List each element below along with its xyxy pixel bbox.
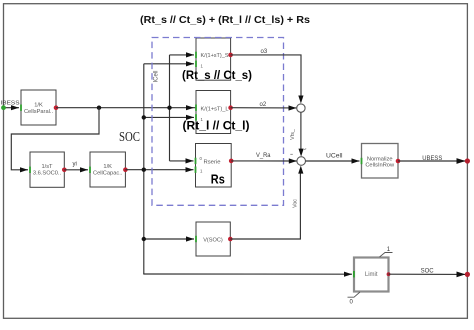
- svg-text:Rs: Rs: [211, 173, 225, 187]
- block Rserie: [186, 144, 234, 188]
- svg-text:V(SOC): V(SOC): [203, 237, 223, 243]
- wire SOC bottom run to Limit: [143, 273, 352, 275]
- svg-text:yi: yi: [73, 161, 77, 167]
- svg-text:(Rt_s // Ct_s): (Rt_s // Ct_s): [182, 68, 252, 82]
- svg-text:V_Ra: V_Ra: [256, 153, 271, 159]
- wire sum1 to sum2: [300, 112, 302, 150]
- block Normalize CellsInRow: [361, 144, 401, 179]
- svg-text:Limit: Limit: [365, 272, 378, 278]
- wire feedback to integrator: [11, 108, 99, 170]
- wire SOC bus to RC_S in1: [144, 63, 194, 65]
- svg-text:Vts_: Vts_: [290, 129, 296, 140]
- svg-text:(Rt_s // Ct_s) + (Rt_l // Ct_l: (Rt_s // Ct_s) + (Rt_l // Ct_ls) + Rs: [140, 14, 310, 26]
- wire CellsParal to ICell bus: [56, 107, 196, 109]
- wire o3 arrow into sum1: [298, 96, 303, 104]
- block RC_S K/(1+sT)_S: [186, 38, 233, 80]
- svg-text:K/(1+sT)_L: K/(1+sT)_L: [201, 106, 229, 112]
- svg-text:1/sT: 1/sT: [41, 164, 53, 170]
- svg-text:3.6.SOC0..: 3.6.SOC0..: [33, 170, 62, 176]
- wire V_Ra: [231, 158, 297, 163]
- wire ICell bus to RC_S in0: [170, 54, 195, 56]
- limit saturation mark top: [380, 247, 393, 257]
- wire Voc from V(SOC) up into sum2: [230, 173, 300, 239]
- wire SOC bus to V(SOC): [144, 238, 194, 240]
- wire ICell bus vertical: [169, 55, 171, 161]
- wire Voc arrow into sum2 from below: [298, 166, 303, 174]
- svg-text:ICell: ICell: [154, 70, 160, 82]
- svg-text:CellsInRow: CellsInRow: [365, 163, 395, 169]
- block RC_L K/(1+sT)_L: [186, 91, 233, 134]
- svg-text:IBESS: IBESS: [1, 100, 20, 106]
- block CellCapac (1/K): [89, 152, 128, 187]
- block CellsParal (1/K): [20, 90, 58, 125]
- svg-text:(Rt_l // Ct_l): (Rt_l // Ct_l): [183, 119, 250, 133]
- svg-text:Rserie: Rserie: [204, 159, 221, 165]
- wire CellCapac out to Rserie in1: [125, 169, 193, 171]
- svg-text:1/K: 1/K: [34, 102, 43, 108]
- svg-text:Normalize: Normalize: [367, 156, 393, 162]
- svg-text:K/(1+sT)_S: K/(1+sT)_S: [201, 53, 229, 59]
- wire yi: [64, 167, 88, 172]
- svg-text:SOC: SOC: [421, 268, 435, 275]
- svg-text:UCell: UCell: [326, 153, 343, 159]
- junction A on main line: [97, 106, 101, 110]
- wire o2: [231, 105, 297, 110]
- svg-text:o2: o2: [260, 102, 267, 108]
- wire ICell bus to Rserie in0: [170, 160, 194, 162]
- junction SOC bus / CellCapac: [142, 168, 146, 172]
- wire o3: [231, 55, 301, 97]
- junction ICell bus: [167, 106, 171, 110]
- wire UCell: [306, 158, 360, 163]
- block V(SOC): [186, 222, 233, 256]
- wire SOC output: [389, 272, 471, 278]
- junction SOC bus V(SOC) branch: [142, 237, 146, 241]
- wire SOC bus to RC_L in1: [144, 116, 194, 118]
- wire SOC bus vertical: [143, 64, 145, 274]
- junction SOC bus RC_L branch: [142, 115, 146, 119]
- svg-text:CellCapac..: CellCapac..: [93, 170, 123, 176]
- svg-text:o3: o3: [261, 49, 268, 55]
- svg-text:CellsParal..: CellsParal..: [24, 109, 53, 115]
- sum2 sign marks: [290, 149, 306, 155]
- block integrator 1/sT 3.6.SOC0: [29, 152, 67, 187]
- dashed group box: [152, 38, 284, 206]
- block Limit: [344, 258, 390, 292]
- summation sum2: [297, 157, 306, 166]
- svg-text:UBESS: UBESS: [422, 155, 442, 162]
- wire arrow into sum2 from top: [299, 149, 304, 157]
- wire arrow into integrator: [19, 167, 28, 172]
- summation sum1: [297, 104, 305, 112]
- svg-text:1/K: 1/K: [103, 164, 112, 170]
- wire IBESS input: [1, 105, 19, 110]
- wire UBESS output: [398, 158, 470, 164]
- svg-text:SOC: SOC: [119, 130, 140, 145]
- limit saturation mark bottom: [348, 292, 361, 306]
- svg-text:Voc: Voc: [292, 199, 298, 208]
